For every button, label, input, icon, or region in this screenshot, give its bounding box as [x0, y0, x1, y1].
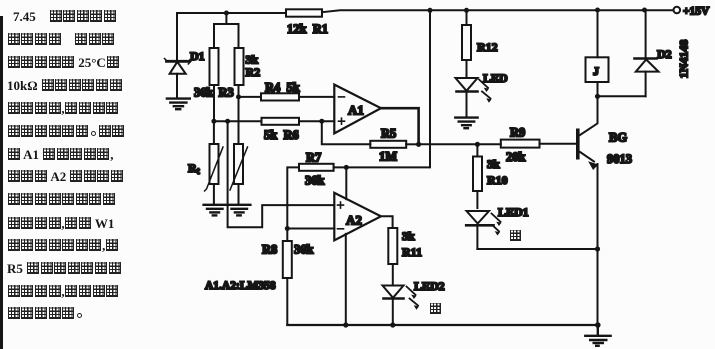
- wire R9 to base: [540, 143, 577, 145]
- svg-text:+15V: +15V: [683, 6, 710, 18]
- resistor R2: [235, 48, 244, 85]
- node R8/A2 minus: [285, 226, 290, 231]
- resistor R10: [473, 157, 482, 192]
- svg-text:R10: R10: [487, 173, 508, 187]
- op-amp A2: [334, 193, 381, 241]
- op-amp A1: [334, 85, 381, 134]
- wire R6 to A1: [299, 120, 334, 122]
- wire A2 vminus pin: [345, 234, 347, 325]
- wire R3 bottom: [213, 85, 215, 121]
- wire R4 line: [239, 96, 262, 98]
- wire top rail left: [177, 12, 286, 14]
- LED (R12): [456, 78, 492, 116]
- svg-text:R11: R11: [402, 245, 422, 259]
- svg-text:BG: BG: [609, 131, 627, 145]
- resistor R7: [299, 164, 334, 171]
- wire R2 bottom: [238, 85, 240, 144]
- svg-text:R12: R12: [477, 40, 498, 54]
- resistor R1: [286, 9, 322, 16]
- wire split T: [214, 13, 239, 48]
- node R10 hang: [476, 144, 478, 156]
- label LED2 colour (yellow): [430, 303, 441, 314]
- svg-text:12k R1: 12k R1: [287, 22, 328, 36]
- wire A2 minus input: [287, 228, 334, 230]
- svg-text:9013: 9013: [607, 152, 632, 166]
- resistor R4: [261, 93, 299, 100]
- svg-text:R5: R5: [381, 127, 396, 141]
- svg-text:A1.A2:LM358: A1.A2:LM358: [205, 280, 276, 292]
- svg-text:Rt: Rt: [188, 161, 200, 176]
- wire R11 to LED2: [392, 264, 394, 286]
- wire mid line to R10/R9: [419, 143, 501, 145]
- svg-text:LED2: LED2: [414, 279, 445, 293]
- node R10 top: [475, 142, 480, 147]
- svg-text:20k: 20k: [506, 150, 526, 164]
- node LED2 / rail: [390, 322, 395, 327]
- wire LED1 to emitter: [477, 248, 597, 250]
- wire top rail right: [322, 10, 673, 12]
- svg-text:36k: 36k: [294, 243, 314, 257]
- svg-text:R7: R7: [306, 151, 321, 165]
- ground (W1): [228, 205, 250, 216]
- potentiometer W1: [230, 144, 248, 203]
- wire A2 plus link: [228, 121, 335, 227]
- svg-text:A1: A1: [348, 103, 364, 118]
- diode D1: [165, 13, 191, 97]
- node rail end: [595, 322, 601, 328]
- diode D2: [635, 10, 659, 96]
- resistor R12: [462, 10, 471, 78]
- wire A2 vplus pin: [345, 167, 347, 199]
- wire R6 line: [214, 120, 262, 122]
- node J bottom: [595, 94, 600, 99]
- wire R10 to LED1: [476, 191, 478, 208]
- svg-text:R3: R3: [219, 86, 234, 100]
- node R3/R6: [211, 119, 216, 124]
- wire R4 to A1: [299, 96, 334, 98]
- terminal +15V: [674, 7, 681, 14]
- svg-text:36k: 36k: [194, 86, 214, 100]
- wire emitter down: [597, 164, 599, 325]
- LED LED2: [383, 286, 420, 326]
- node rail/D2: [642, 8, 647, 13]
- svg-text:J: J: [593, 64, 599, 78]
- wire R8 bottom: [286, 278, 288, 325]
- svg-text:R2: R2: [246, 65, 261, 79]
- svg-text:D2: D2: [657, 47, 672, 61]
- node link/R6: [225, 119, 230, 124]
- resistor R9: [501, 140, 540, 148]
- wire bottom rail: [287, 324, 598, 326]
- ground (Rt): [204, 205, 226, 216]
- wire R7 left to R8 node: [287, 167, 299, 228]
- node rail/R12: [464, 8, 469, 13]
- resistor R6: [262, 118, 300, 125]
- wire R8 top lead: [286, 229, 288, 242]
- svg-text:36k: 36k: [305, 174, 325, 188]
- transistor Q1 emitter: [580, 152, 594, 162]
- svg-text:A2: A2: [346, 213, 362, 228]
- svg-text:LED: LED: [483, 71, 508, 85]
- LED LED1: [466, 211, 501, 249]
- wire J to D2: [598, 95, 646, 97]
- relay J: [586, 10, 609, 96]
- wire R5 feedback: [322, 121, 371, 144]
- node rail/J: [595, 8, 600, 13]
- node A2 vplus pin: [344, 165, 349, 170]
- svg-text:R4 5k: R4 5k: [265, 81, 300, 95]
- wire +15V drop to R7 line: [334, 10, 430, 167]
- svg-text:3k: 3k: [487, 157, 500, 171]
- node A2 pin / rail: [343, 322, 348, 327]
- node rail/drop: [428, 8, 433, 13]
- resistor R8: [283, 241, 292, 278]
- svg-text:5k R6: 5k R6: [264, 128, 299, 142]
- ground (D1): [167, 99, 190, 110]
- wire A1 output: [381, 108, 419, 144]
- transistor Q1 collector: [580, 96, 598, 135]
- paragraph text column: [13, 9, 117, 25]
- node A1 out / R5: [416, 142, 421, 147]
- svg-text:D1: D1: [190, 49, 205, 63]
- svg-text:LED1: LED1: [498, 205, 529, 219]
- svg-text:3k: 3k: [402, 229, 415, 243]
- transistor Q1 base bar: [576, 129, 580, 160]
- resistor R5: [370, 141, 406, 148]
- wire A2 output: [381, 216, 393, 228]
- svg-text:1N4148: 1N4148: [677, 40, 691, 79]
- svg-text:R9: R9: [510, 126, 525, 140]
- resistor R3: [210, 48, 219, 85]
- resistor R11: [388, 228, 397, 264]
- svg-text:R8: R8: [262, 243, 277, 257]
- wire R5 to node: [406, 143, 418, 145]
- thermistor Rt: [205, 121, 224, 203]
- ground (LED): [455, 118, 477, 129]
- node R2/R4: [236, 94, 241, 99]
- left scanned page edge: [0, 16, 3, 349]
- ground (emitter): [585, 325, 610, 346]
- node emitter line: [595, 246, 600, 251]
- node top rail split: [224, 11, 229, 16]
- svg-text:1M: 1M: [379, 150, 397, 164]
- node A1 plus feedback: [319, 119, 324, 124]
- label LED1 colour (red): [510, 230, 521, 241]
